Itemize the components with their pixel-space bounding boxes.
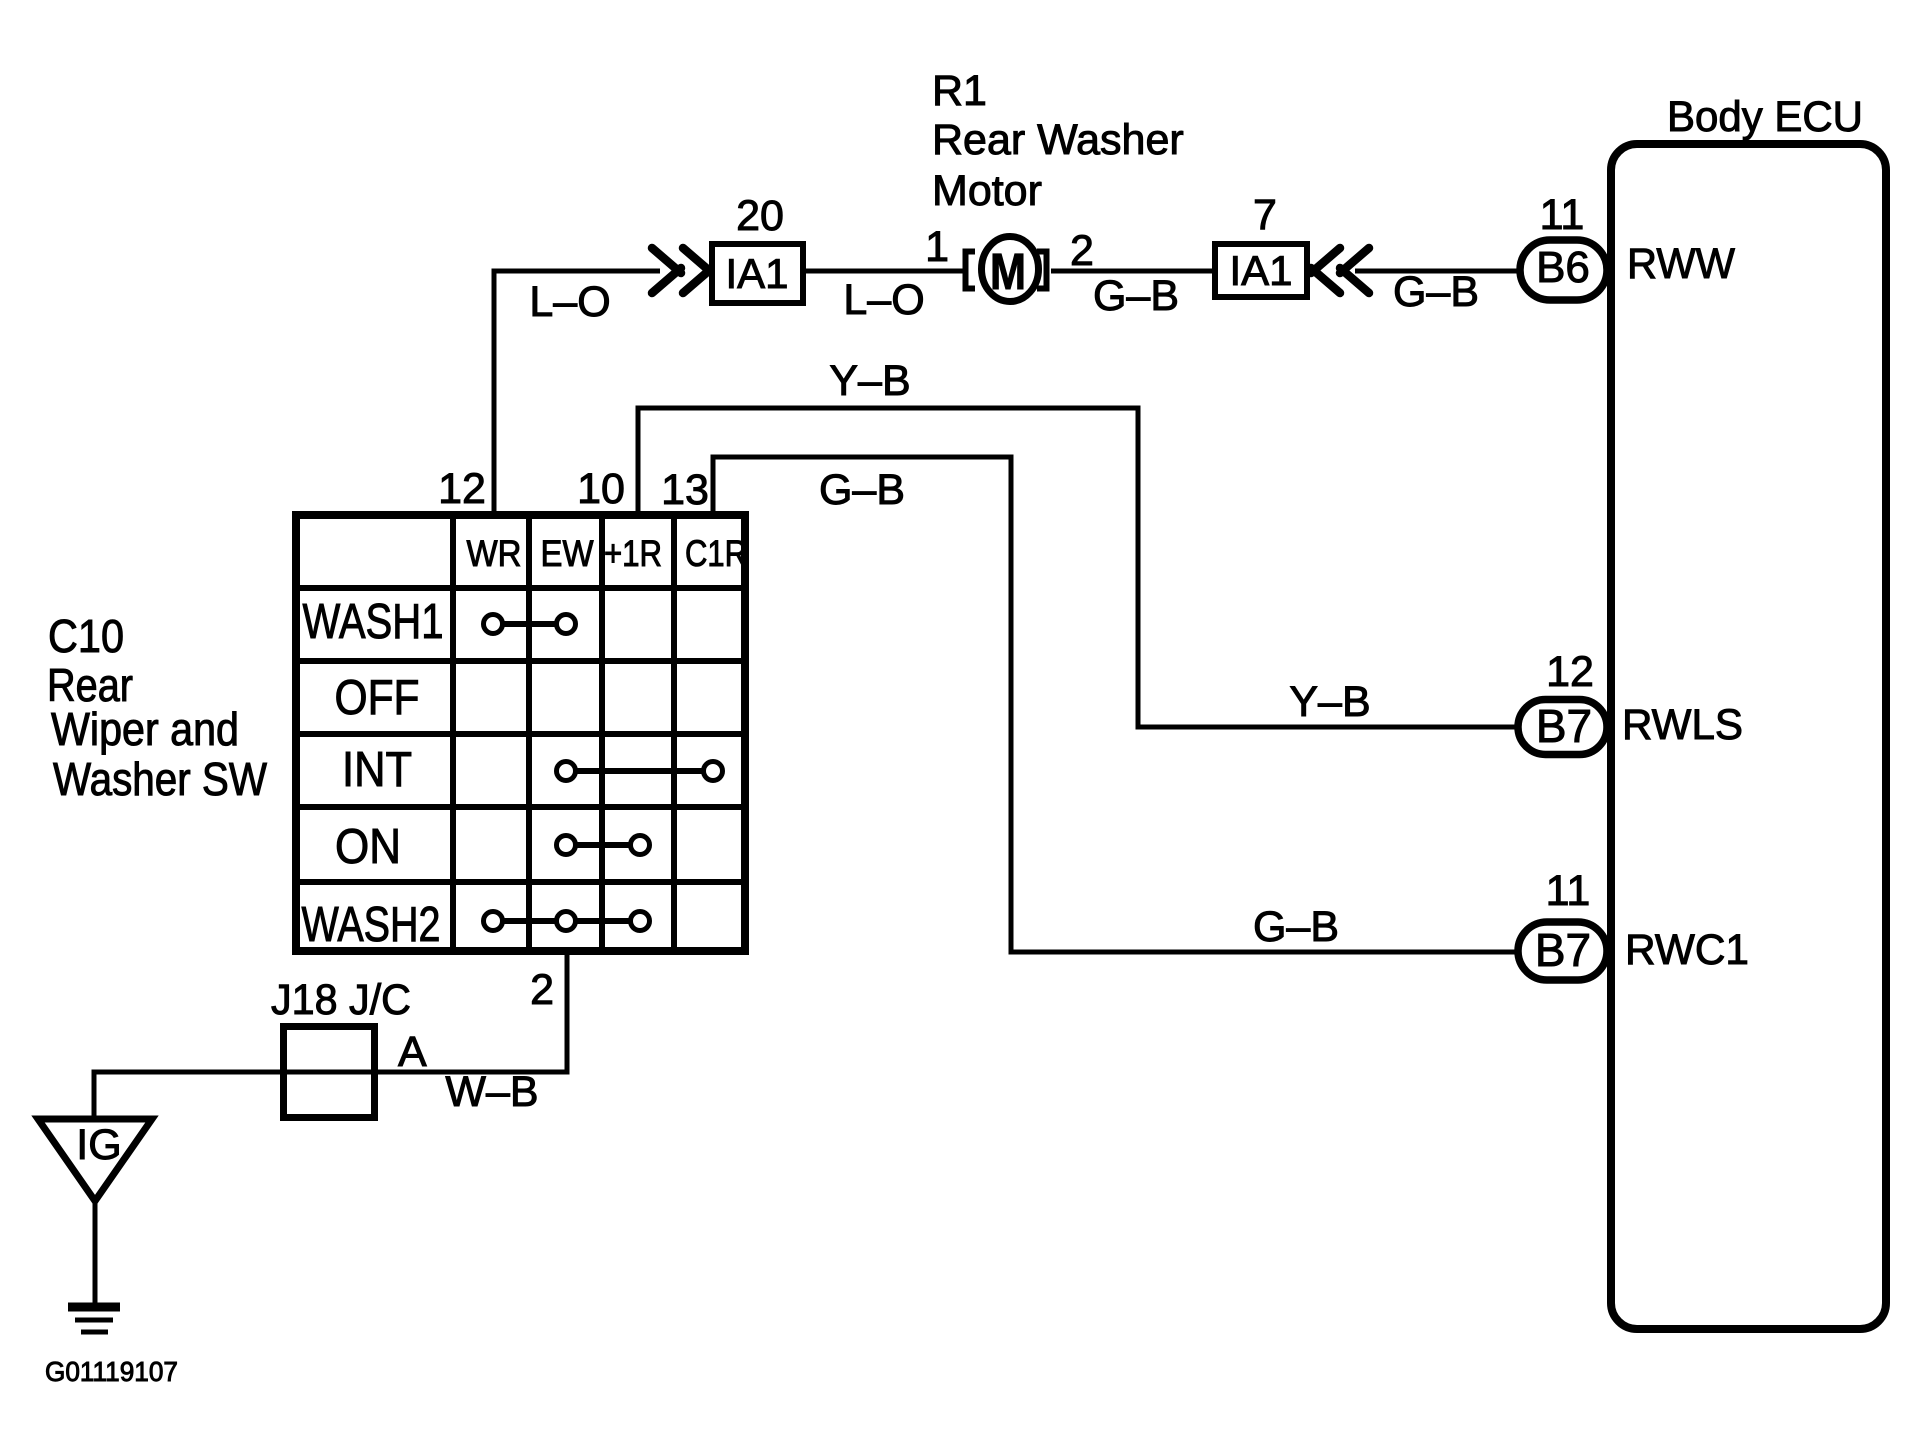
svg-text:G–B: G–B: [1393, 268, 1479, 316]
svg-text:B7: B7: [1535, 924, 1591, 976]
svg-text:C10: C10: [48, 610, 124, 662]
svg-text:IA1: IA1: [725, 250, 788, 297]
svg-text:11: 11: [1546, 867, 1591, 915]
svg-text:INT: INT: [342, 743, 412, 797]
svg-text:2: 2: [1070, 227, 1094, 275]
svg-text:IG: IG: [76, 1121, 121, 1169]
svg-text:7: 7: [1253, 191, 1277, 239]
svg-text:2: 2: [530, 966, 554, 1014]
svg-text:RWW: RWW: [1627, 240, 1735, 288]
svg-text:12: 12: [1546, 648, 1594, 696]
svg-text:B7: B7: [1536, 700, 1592, 752]
svg-text:11: 11: [1540, 191, 1585, 239]
svg-text:+1R: +1R: [604, 533, 662, 574]
svg-text:Rear Washer: Rear Washer: [932, 116, 1184, 164]
svg-text:10: 10: [577, 465, 625, 513]
svg-text:J18 J/C: J18 J/C: [271, 976, 411, 1024]
svg-text:L–O: L–O: [843, 276, 924, 324]
svg-text:12: 12: [438, 465, 486, 513]
svg-text:C1R: C1R: [685, 533, 747, 574]
svg-text:R1: R1: [932, 67, 987, 115]
svg-text:G–B: G–B: [1093, 272, 1179, 320]
svg-text:Motor: Motor: [932, 167, 1042, 215]
svg-text:W–B: W–B: [445, 1068, 538, 1116]
svg-text:OFF: OFF: [335, 671, 420, 725]
svg-text:WR: WR: [467, 533, 522, 574]
svg-text:L–O: L–O: [529, 278, 610, 326]
svg-text:20: 20: [736, 192, 784, 240]
svg-text:EW: EW: [541, 533, 594, 574]
svg-text:Body ECU: Body ECU: [1667, 93, 1863, 141]
svg-text:RWLS: RWLS: [1622, 701, 1743, 749]
svg-text:1: 1: [925, 223, 949, 271]
svg-text:13: 13: [661, 466, 709, 514]
svg-text:G–B: G–B: [1253, 903, 1339, 951]
svg-text:IA1: IA1: [1229, 247, 1292, 294]
svg-text:M: M: [990, 243, 1026, 300]
svg-text:Y–B: Y–B: [829, 357, 910, 405]
svg-text:WASH1: WASH1: [303, 595, 444, 649]
svg-text:G01119107: G01119107: [45, 1356, 178, 1387]
svg-text:WASH2: WASH2: [302, 898, 441, 952]
svg-text:RWC1: RWC1: [1625, 926, 1749, 974]
svg-text:G–B: G–B: [819, 466, 905, 514]
svg-text:ON: ON: [335, 820, 401, 874]
svg-text:Y–B: Y–B: [1289, 678, 1370, 726]
svg-text:Wiper and: Wiper and: [51, 703, 239, 755]
svg-text:A: A: [398, 1028, 427, 1076]
svg-text:Washer SW: Washer SW: [53, 753, 268, 805]
svg-text:B6: B6: [1536, 243, 1590, 292]
